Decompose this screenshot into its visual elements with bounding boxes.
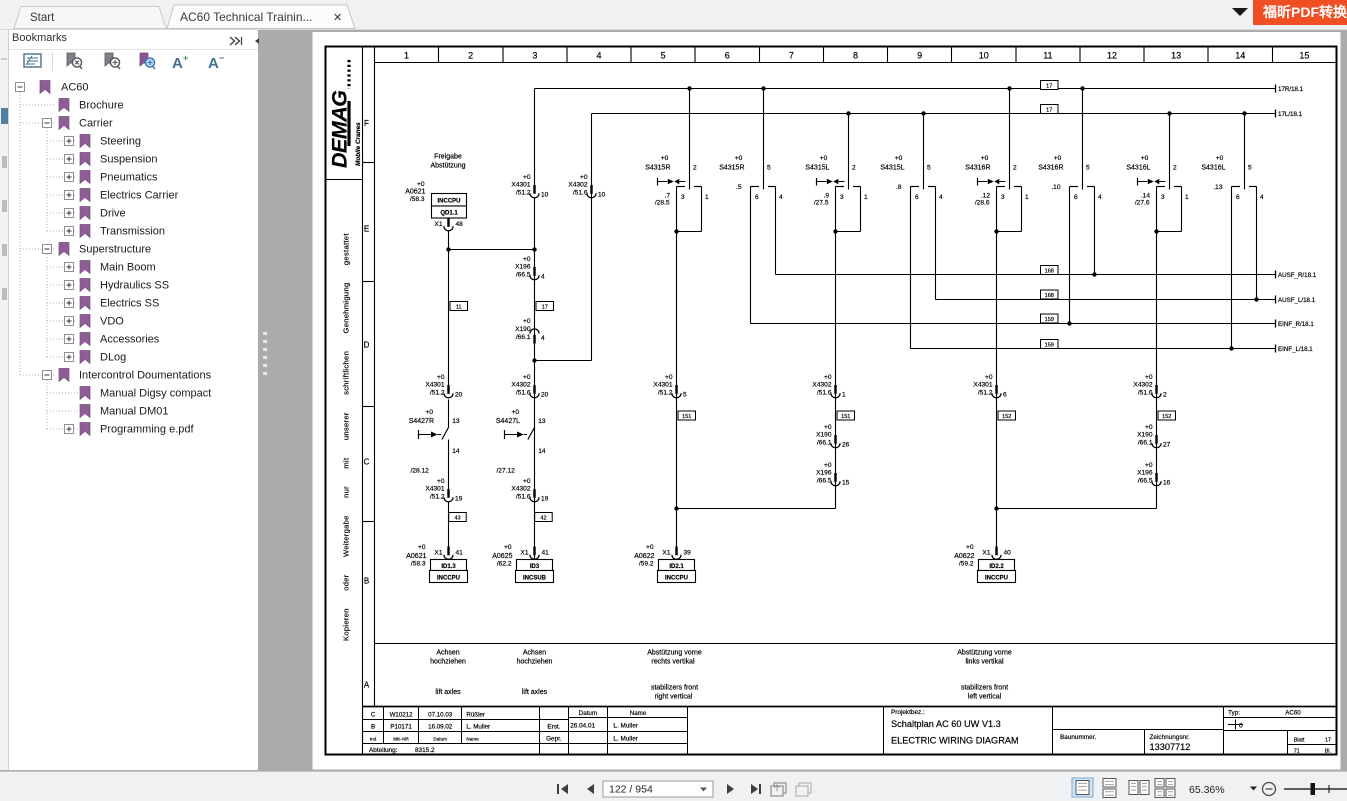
text Freigabe Abstuetzung xyxy=(430,154,465,170)
svg-text:17: 17 xyxy=(1046,108,1052,114)
svg-text:13307712: 13307712 xyxy=(1150,742,1191,752)
svg-text:168: 168 xyxy=(1045,293,1054,299)
wire number label 168 on AUSF_L xyxy=(1041,290,1059,299)
svg-text:40: 40 xyxy=(1004,550,1012,557)
svg-text:17L/18.1: 17L/18.1 xyxy=(1278,111,1303,118)
svg-text:+0: +0 xyxy=(661,155,669,162)
proximity switch S4315L (pin 2) xyxy=(805,111,868,233)
svg-text:+0: +0 xyxy=(1216,155,1224,162)
svg-text:Projektbez.:: Projektbez.: xyxy=(891,709,925,716)
svg-text:Bl.: Bl. xyxy=(1325,749,1331,755)
svg-text:S4315R: S4315R xyxy=(719,165,744,172)
node ID2.2 tie xyxy=(994,506,998,510)
svg-text:27: 27 xyxy=(1163,442,1171,449)
connector X4302/51.6 pin 1 xyxy=(812,374,846,399)
proximity switch S4315R (pin 2) xyxy=(645,86,709,233)
connector X4302/51.6 pin 20 xyxy=(511,374,548,399)
connector X4302/51.6 pin 10 xyxy=(568,174,605,199)
svg-text:14: 14 xyxy=(452,448,460,455)
svg-text:L. Muller: L. Muller xyxy=(613,735,638,742)
svg-text:S4315L: S4315L xyxy=(805,165,829,172)
svg-text:17R/18.1: 17R/18.1 xyxy=(1278,86,1304,93)
net label AUSF_R/18.1 xyxy=(1276,271,1317,279)
wire S4316L pin 6 to EINF_L xyxy=(1231,187,1233,349)
wire bus AUSF_R xyxy=(775,187,777,275)
svg-text:/58.3: /58.3 xyxy=(410,196,425,203)
proximity switch S4316R (pin 2) xyxy=(965,86,1029,233)
svg-text:+0: +0 xyxy=(523,318,531,325)
svg-text:14: 14 xyxy=(538,448,546,455)
svg-text:links vertikal: links vertikal xyxy=(965,659,1004,666)
svg-text:151: 151 xyxy=(682,414,691,420)
svg-text:16.09.02: 16.09.02 xyxy=(428,724,453,731)
svg-text:Mtt–NR: Mtt–NR xyxy=(393,737,409,742)
net label EINF_L/18.1 xyxy=(1276,345,1314,353)
svg-text:152: 152 xyxy=(1002,414,1011,420)
svg-text:Datum: Datum xyxy=(433,737,447,742)
svg-text:+0: +0 xyxy=(981,155,989,162)
svg-text:X190: X190 xyxy=(515,326,531,333)
svg-text:Achsen: Achsen xyxy=(436,650,459,657)
svg-text:X4302: X4302 xyxy=(511,382,530,389)
svg-text:+0: +0 xyxy=(824,374,832,381)
svg-text:4: 4 xyxy=(596,51,601,61)
svg-text:8: 8 xyxy=(853,51,858,61)
wire S4316L pin 4 to AUSF_L xyxy=(1256,187,1258,300)
svg-text:Name: Name xyxy=(466,737,479,742)
svg-text:S4316R: S4316R xyxy=(1038,165,1063,172)
svg-text:ID1.3: ID1.3 xyxy=(441,564,456,570)
svg-text:+0: +0 xyxy=(735,155,743,162)
svg-text:2: 2 xyxy=(852,165,856,172)
proximity switch S4315R (pin 5) xyxy=(719,86,783,201)
svg-text:26.04.01: 26.04.01 xyxy=(570,723,595,730)
wire number label 151 xyxy=(678,411,696,420)
net label 17R/18.1 xyxy=(1276,85,1304,93)
svg-text:stabilizers front: stabilizers front xyxy=(961,685,1008,692)
svg-text:152: 152 xyxy=(1162,414,1171,420)
svg-text:6: 6 xyxy=(755,194,759,201)
wire number label 17 on 17R xyxy=(1041,81,1059,90)
svg-text:rechts vertikal: rechts vertikal xyxy=(651,659,695,666)
wire number label 159 on EINF_L xyxy=(1041,340,1059,349)
wire col2-col3 tie xyxy=(449,249,535,251)
svg-text:11: 11 xyxy=(1043,51,1052,61)
svg-text:Achsen: Achsen xyxy=(523,650,546,657)
svg-text:/51.2: /51.2 xyxy=(516,190,531,197)
svg-text:lift axles: lift axles xyxy=(435,689,461,696)
svg-text:L. Muller: L. Muller xyxy=(466,724,490,731)
limit switch S4427L pins 13-14 xyxy=(496,409,546,474)
module A0622 ID2.1 INCCPU xyxy=(658,560,696,583)
svg-text:2: 2 xyxy=(1173,165,1177,172)
svg-text:.12: .12 xyxy=(981,193,990,200)
svg-text:3: 3 xyxy=(681,194,685,201)
svg-text:5: 5 xyxy=(767,165,771,172)
svg-text:+0: +0 xyxy=(820,155,828,162)
svg-text:+0: +0 xyxy=(437,374,445,381)
svg-text:159: 159 xyxy=(1045,317,1054,323)
svg-text:9: 9 xyxy=(917,51,922,61)
svg-text:16: 16 xyxy=(1163,480,1171,487)
title block xyxy=(363,707,1337,755)
svg-text:43: 43 xyxy=(454,516,460,522)
svg-text:hochziehen: hochziehen xyxy=(430,659,466,666)
svg-text:Abstützung vorne: Abstützung vorne xyxy=(647,650,702,657)
svg-text:Zeichnungsnr.: Zeichnungsnr. xyxy=(1150,734,1190,741)
svg-text:3: 3 xyxy=(840,194,844,201)
svg-text:/66.5: /66.5 xyxy=(817,478,832,485)
svg-text:17: 17 xyxy=(1046,84,1052,90)
svg-text:/28.6: /28.6 xyxy=(975,200,990,207)
wire chain S4316R-3 down xyxy=(996,232,998,549)
wire number label 43 xyxy=(449,513,467,522)
svg-text:/51.2: /51.2 xyxy=(430,494,445,501)
svg-text:+0: +0 xyxy=(437,478,445,485)
wire xyxy=(534,199,536,561)
connector X196/66.5 pin 4 xyxy=(515,256,545,281)
node col2/col3 tie xyxy=(446,247,450,251)
svg-text:+0: +0 xyxy=(1145,424,1153,431)
svg-text:+0: +0 xyxy=(523,174,531,181)
svg-text:+0: +0 xyxy=(1145,462,1153,469)
svg-text:/51.2: /51.2 xyxy=(658,390,673,397)
wire number label 159 on EINF_R xyxy=(1041,314,1059,323)
svg-text:X4301: X4301 xyxy=(425,382,444,389)
svg-text:.8: .8 xyxy=(896,184,902,191)
function descriptions row A xyxy=(430,650,1012,701)
svg-text:/66.5: /66.5 xyxy=(1138,478,1153,485)
svg-text:42: 42 xyxy=(540,516,546,522)
svg-text:QD1.1: QD1.1 xyxy=(440,211,458,217)
svg-text:Datum: Datum xyxy=(579,710,597,717)
svg-text:X4302: X4302 xyxy=(1133,382,1152,389)
wire chain S4315R-3 down xyxy=(676,232,678,549)
svg-text:S4316L: S4316L xyxy=(1201,165,1225,172)
svg-text:2: 2 xyxy=(693,165,697,172)
svg-text:1: 1 xyxy=(705,194,709,201)
svg-text:168: 168 xyxy=(1045,269,1054,275)
svg-text:INCCPU: INCCPU xyxy=(985,576,1008,582)
svg-text:A: A xyxy=(364,681,370,690)
svg-text:Blatt: Blatt xyxy=(1294,737,1305,743)
connector X4302/51.6 pin 2 xyxy=(1133,374,1167,399)
svg-text:X190: X190 xyxy=(1137,432,1153,439)
connector X4301/51.2 pin 20 xyxy=(425,374,462,399)
svg-text:+0: +0 xyxy=(895,155,903,162)
proximity switch S4316L (pin 5) xyxy=(1201,111,1264,201)
connector X4301/51.2 pin 10 xyxy=(511,174,548,199)
svg-text:A0625: A0625 xyxy=(492,553,512,560)
svg-text:6: 6 xyxy=(915,194,919,201)
svg-text:INCSUB: INCSUB xyxy=(523,576,547,582)
svg-text:/27.6: /27.6 xyxy=(1135,200,1150,207)
svg-text:19: 19 xyxy=(541,496,549,503)
svg-text:71: 71 xyxy=(1294,749,1300,755)
connector X190/66.1 pin 27 xyxy=(1137,424,1171,449)
svg-text:13: 13 xyxy=(1171,51,1181,61)
svg-text:A0622: A0622 xyxy=(634,553,654,560)
svg-text:ID2.2: ID2.2 xyxy=(989,564,1004,570)
svg-text:159: 159 xyxy=(1045,343,1054,349)
svg-text:X4301: X4301 xyxy=(511,182,530,189)
wire bus 17L xyxy=(592,113,1276,115)
connector X1 pin 39 on A0622 xyxy=(672,547,681,560)
node col3/X4302 tie xyxy=(532,358,536,362)
wire number label 168 on AUSF_R xyxy=(1041,266,1059,275)
net label AUSF_L/18.1 xyxy=(1276,296,1316,304)
svg-text:INCCPU: INCCPU xyxy=(437,576,460,582)
svg-text:Typ:: Typ: xyxy=(1228,710,1240,717)
svg-text:+0: +0 xyxy=(665,374,673,381)
column number band 1-15 xyxy=(404,47,1309,63)
svg-text:6: 6 xyxy=(1236,194,1240,201)
svg-text:ELECTRIC WIRING DIAGRAM: ELECTRIC WIRING DIAGRAM xyxy=(891,736,1019,746)
svg-text:6: 6 xyxy=(1003,392,1007,399)
svg-text:20: 20 xyxy=(455,392,463,399)
proximity switch S4315L (pin 5) xyxy=(880,111,943,201)
svg-text:X4301: X4301 xyxy=(425,486,444,493)
svg-text:/27.12: /27.12 xyxy=(496,467,515,474)
svg-text:A0621: A0621 xyxy=(406,553,426,560)
svg-text:+0: +0 xyxy=(417,181,425,188)
svg-text:S4315L: S4315L xyxy=(880,165,904,172)
svg-text:3: 3 xyxy=(1001,194,1005,201)
drawing sheet xyxy=(313,32,1341,770)
wire number label 17 on 17L xyxy=(1041,105,1059,114)
svg-text:+0: +0 xyxy=(580,174,588,181)
wire QD1.1 down xyxy=(448,232,450,391)
wire tie xyxy=(997,508,1157,510)
svg-text:11: 11 xyxy=(456,305,462,311)
connector X190/66.1 pin 4 (socket up) xyxy=(515,318,545,344)
connector X4301/51.2 pin 19 xyxy=(425,478,462,503)
wire xyxy=(448,440,450,491)
svg-text:15: 15 xyxy=(842,480,850,487)
wire number label 151 xyxy=(837,411,855,420)
svg-text:.5: .5 xyxy=(736,184,742,191)
row letter column F E D C B A xyxy=(363,119,375,690)
svg-text:D: D xyxy=(364,341,370,350)
svg-text:2: 2 xyxy=(1013,165,1017,172)
svg-text:5: 5 xyxy=(661,51,666,61)
svg-text:4: 4 xyxy=(541,335,545,342)
svg-text:Erst.: Erst. xyxy=(547,724,560,731)
svg-text:/28.5: /28.5 xyxy=(655,200,670,207)
wire chain S4315L-3 down xyxy=(835,232,837,509)
svg-text:X1: X1 xyxy=(662,550,670,557)
svg-text:Name: Name xyxy=(630,710,647,717)
svg-text:10: 10 xyxy=(541,192,549,199)
svg-text:4: 4 xyxy=(779,194,783,201)
svg-text:X1: X1 xyxy=(520,550,528,557)
wire bus 17R xyxy=(535,88,1276,90)
wire number label 152 xyxy=(1158,411,1176,420)
svg-text:1: 1 xyxy=(1025,194,1029,201)
svg-text:+0: +0 xyxy=(425,409,433,416)
svg-text:/51.6: /51.6 xyxy=(516,494,531,501)
svg-text:/51.6: /51.6 xyxy=(573,190,588,197)
svg-text:19: 19 xyxy=(455,496,463,503)
node col3 tie xyxy=(532,247,536,251)
svg-text:X1: X1 xyxy=(434,550,442,557)
svg-text:C: C xyxy=(364,458,370,467)
wire bus EINF_L xyxy=(910,187,912,349)
svg-text:Gepr.: Gepr. xyxy=(546,735,562,742)
svg-text:Abstützung: Abstützung xyxy=(430,163,465,170)
svg-text:A0621: A0621 xyxy=(405,189,425,196)
svg-text:hochziehen: hochziehen xyxy=(517,659,553,666)
connector X190/66.1 pin 26 xyxy=(816,424,850,449)
svg-text:X4302: X4302 xyxy=(812,382,831,389)
svg-text:+0: +0 xyxy=(523,374,531,381)
svg-text:/62.2: /62.2 xyxy=(497,561,512,568)
svg-text:4: 4 xyxy=(939,194,943,201)
svg-text:Freigabe: Freigabe xyxy=(434,154,462,161)
svg-text:C: C xyxy=(371,712,376,719)
svg-text:+0: +0 xyxy=(1141,155,1149,162)
svg-text:+0: +0 xyxy=(824,462,832,469)
svg-text:W10212: W10212 xyxy=(390,712,414,719)
svg-text:+0: +0 xyxy=(523,478,531,485)
wire tie xyxy=(677,508,836,510)
svg-text:X4302: X4302 xyxy=(568,182,587,189)
svg-text:X1: X1 xyxy=(434,221,442,228)
svg-text:/66.1: /66.1 xyxy=(817,440,832,447)
net label 17L/18.1 xyxy=(1276,110,1303,118)
svg-text:26: 26 xyxy=(842,442,850,449)
svg-text:E: E xyxy=(364,225,369,234)
svg-text:X4301: X4301 xyxy=(973,382,992,389)
svg-text:L. Muller: L. Muller xyxy=(613,723,638,730)
sheet border frame xyxy=(326,47,1337,755)
connector X196/66.5 pin 15 xyxy=(816,462,850,487)
svg-text:X1: X1 xyxy=(982,550,990,557)
svg-text:17: 17 xyxy=(542,305,548,311)
svg-text:41: 41 xyxy=(456,550,464,557)
svg-text:INCCPU: INCCPU xyxy=(665,576,688,582)
svg-text:S4316L: S4316L xyxy=(1126,165,1150,172)
wire number label 42 xyxy=(535,513,553,522)
svg-text:S4427R: S4427R xyxy=(409,418,434,425)
svg-text:/58.3: /58.3 xyxy=(411,561,426,568)
svg-text:/51.6: /51.6 xyxy=(817,390,832,397)
wire number label 11 xyxy=(450,302,468,311)
wire 17R riser col3 xyxy=(534,89,536,191)
svg-text:1: 1 xyxy=(1185,194,1189,201)
svg-text:A0622: A0622 xyxy=(954,553,974,560)
svg-text:39: 39 xyxy=(684,550,692,557)
svg-text:.9: .9 xyxy=(824,193,830,200)
svg-text:INCCPU: INCCPU xyxy=(437,199,460,205)
svg-text:0: 0 xyxy=(1239,723,1243,730)
wire bus EINF_R xyxy=(750,187,752,324)
svg-text:X4301: X4301 xyxy=(653,382,672,389)
svg-text:5: 5 xyxy=(1086,165,1090,172)
module A0621 ID1.3 INCCPU xyxy=(430,560,468,583)
svg-text:left vertical: left vertical xyxy=(968,694,1002,701)
svg-text:Kopieren oder Weitergabe nur m: Kopieren oder Weitergabe nur mit unserer… xyxy=(342,233,351,641)
net label EINF_R/18.1 xyxy=(1276,320,1315,328)
svg-text:3: 3 xyxy=(1161,194,1165,201)
connector X196/66.5 pin 16 xyxy=(1137,462,1171,487)
svg-text:/51.6: /51.6 xyxy=(516,390,531,397)
wire bus AUSF_L xyxy=(935,187,937,300)
svg-text:AUSF_L/18.1: AUSF_L/18.1 xyxy=(1278,297,1316,304)
wire chain S4316L-3 down xyxy=(1156,232,1158,509)
svg-text:14: 14 xyxy=(1235,51,1245,61)
svg-text:+0: +0 xyxy=(824,424,832,431)
connector X1 pin 41 on A0625 xyxy=(530,547,539,560)
svg-text:1: 1 xyxy=(842,392,846,399)
svg-text:4: 4 xyxy=(541,274,545,281)
svg-text:.7: .7 xyxy=(665,193,671,200)
svg-text:6: 6 xyxy=(725,51,730,61)
svg-text:41: 41 xyxy=(542,550,550,557)
svg-text:AUSF_R/18.1: AUSF_R/18.1 xyxy=(1278,272,1317,279)
svg-text:1: 1 xyxy=(404,51,409,61)
svg-text:07.10.03: 07.10.03 xyxy=(428,712,453,719)
svg-text:Schaltplan AC 60 UW V1.3: Schaltplan AC 60 UW V1.3 xyxy=(891,719,1001,729)
svg-text:5: 5 xyxy=(927,165,931,172)
svg-text:ID2.1: ID2.1 xyxy=(669,564,684,570)
svg-text:/66.5: /66.5 xyxy=(516,272,531,279)
svg-text:/66.1: /66.1 xyxy=(1138,440,1153,447)
svg-text:/28.12: /28.12 xyxy=(410,467,429,474)
svg-text:+0: +0 xyxy=(1145,374,1153,381)
svg-text:2: 2 xyxy=(468,51,473,61)
svg-text:AC60: AC60 xyxy=(1285,710,1301,717)
svg-text:/59.2: /59.2 xyxy=(639,561,654,568)
svg-text:.10: .10 xyxy=(1051,184,1060,191)
svg-text:2: 2 xyxy=(1163,392,1167,399)
proximity switch S4316R (pin 5) xyxy=(1038,86,1102,201)
svg-text:122 / 954: 122 / 954 xyxy=(609,784,653,796)
PLC output module A0621 QD1.1 INCCPU xyxy=(405,181,466,218)
svg-text:+0: +0 xyxy=(523,256,531,263)
connector X4301/51.2 pin 5 xyxy=(653,374,687,399)
svg-text:8315.2: 8315.2 xyxy=(415,747,435,754)
svg-text:+0: +0 xyxy=(504,544,512,551)
svg-text:3: 3 xyxy=(532,51,537,61)
wire xyxy=(448,400,450,428)
svg-text:stabilizers front: stabilizers front xyxy=(651,685,698,692)
svg-text:/51.2: /51.2 xyxy=(978,390,993,397)
connector X1 pin 41 on A0621 xyxy=(444,547,453,560)
svg-text:.13: .13 xyxy=(1213,184,1222,191)
svg-text:4: 4 xyxy=(1260,194,1264,201)
svg-text:F: F xyxy=(364,119,369,128)
svg-text:Rüßler: Rüßler xyxy=(466,712,485,719)
connector X4302/51.6 pin 19 xyxy=(511,478,548,503)
svg-text:right vertical: right vertical xyxy=(655,694,693,701)
svg-text:1: 1 xyxy=(864,194,868,201)
svg-text:5: 5 xyxy=(1248,165,1252,172)
svg-text:7: 7 xyxy=(789,51,794,61)
svg-text:/51.2: /51.2 xyxy=(430,390,445,397)
svg-text:Abstützung vorne: Abstützung vorne xyxy=(957,650,1012,657)
connector X1 pin 40 on A0622 xyxy=(992,547,1001,560)
svg-text:X196: X196 xyxy=(515,264,531,271)
svg-text:15: 15 xyxy=(1299,51,1309,61)
svg-text:+0: +0 xyxy=(985,374,993,381)
svg-text:65.36%: 65.36% xyxy=(1189,784,1225,796)
svg-text:20: 20 xyxy=(541,392,549,399)
svg-text:/66.1: /66.1 xyxy=(516,334,531,341)
svg-text:ID3: ID3 xyxy=(530,564,540,570)
svg-text:B: B xyxy=(364,577,369,586)
svg-text:S4427L: S4427L xyxy=(496,418,520,425)
